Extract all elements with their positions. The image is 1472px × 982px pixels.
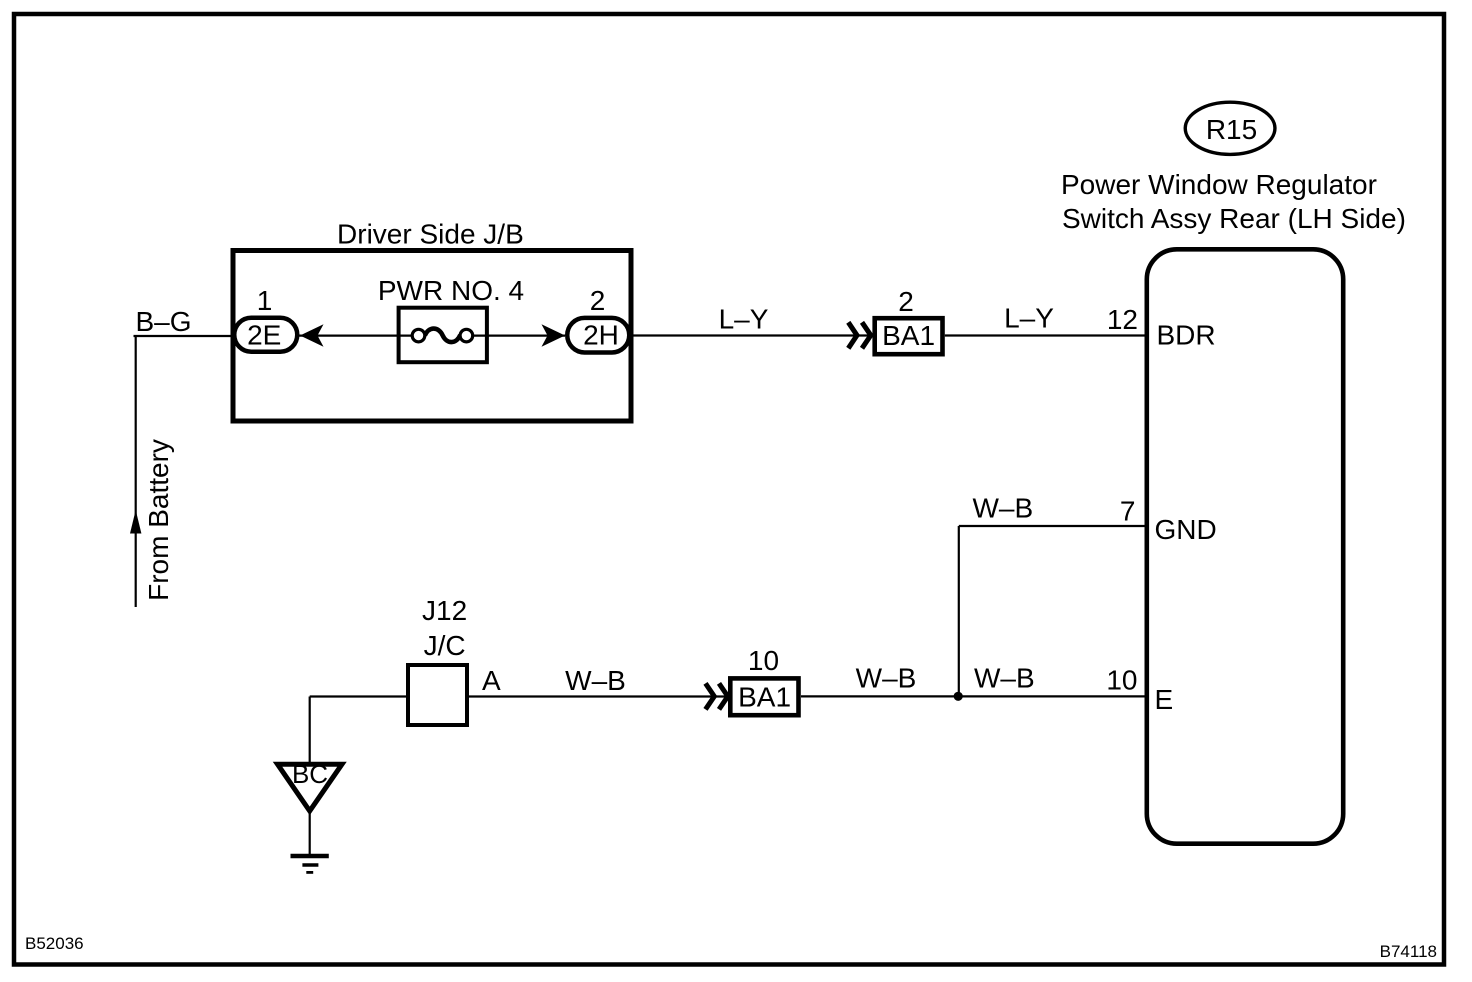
- inline connector BA1 pin 10: [706, 645, 799, 715]
- wire BC to ground symbol: [309, 811, 311, 855]
- svg-text:J12: J12: [422, 595, 467, 626]
- arrowhead into 2E: [300, 324, 324, 346]
- wire down to BC ground: [309, 697, 311, 763]
- svg-text:L–Y: L–Y: [719, 304, 769, 335]
- svg-text:Switch Assy Rear (LH Side): Switch Assy Rear (LH Side): [1062, 203, 1406, 234]
- wire L-Y from 2H to BA1: [632, 304, 873, 336]
- svg-text:W–B: W–B: [972, 493, 1033, 524]
- svg-text:10: 10: [748, 645, 779, 676]
- component body R15 switch assy: [1147, 249, 1343, 843]
- inline connector BA1 pin 2: [848, 286, 942, 354]
- svg-text:W–B: W–B: [856, 663, 917, 694]
- fuse PWR NO. 4: [378, 275, 524, 362]
- svg-text:GND: GND: [1155, 514, 1217, 545]
- svg-text:W–B: W–B: [974, 663, 1035, 694]
- svg-text:Driver Side J/B: Driver Side J/B: [337, 219, 524, 250]
- svg-text:A: A: [482, 665, 501, 696]
- svg-text:2: 2: [898, 286, 914, 317]
- wire from battery (vertical): [130, 336, 174, 607]
- svg-text:2E: 2E: [247, 320, 281, 351]
- svg-text:B74118: B74118: [1380, 942, 1437, 961]
- svg-text:7: 7: [1120, 495, 1136, 526]
- svg-text:B52036: B52036: [25, 934, 84, 953]
- svg-text:R15: R15: [1206, 114, 1257, 145]
- svg-text:E: E: [1155, 684, 1174, 715]
- component tag oval R15: [1185, 102, 1275, 154]
- component title Power Window Regulator Switch Assy Rear (LH Side): [1061, 169, 1406, 234]
- svg-text:2H: 2H: [583, 319, 619, 350]
- connector 2E pin 1: [234, 285, 297, 352]
- svg-text:Power Window Regulator: Power Window Regulator: [1061, 169, 1377, 200]
- svg-text:12: 12: [1107, 304, 1138, 335]
- ground symbol: [291, 856, 329, 872]
- svg-text:BDR: BDR: [1157, 320, 1216, 351]
- junction block Driver Side J/B: [233, 219, 631, 422]
- svg-text:From Battery: From Battery: [143, 439, 174, 601]
- wire ground riser to J/C: [310, 695, 406, 697]
- wire riser junction to GND: [958, 526, 960, 696]
- wire W-B from J/C pin A to BA1: [469, 665, 729, 697]
- ground point BC triangle: [278, 759, 343, 811]
- svg-text:J/C: J/C: [424, 630, 466, 661]
- wire B-G from battery to 2E: [134, 306, 241, 337]
- svg-text:2: 2: [590, 285, 606, 316]
- wire 2E to fuse: [299, 335, 420, 337]
- svg-text:1: 1: [257, 285, 273, 316]
- wire L-Y from BA1 to R15 pin 12: [945, 303, 1146, 336]
- svg-text:B–G: B–G: [136, 306, 192, 337]
- svg-text:BA1: BA1: [882, 320, 935, 351]
- svg-text:BC: BC: [292, 759, 328, 789]
- junction node dot: [954, 692, 963, 701]
- arrowhead into 2H: [542, 324, 566, 346]
- svg-text:W–B: W–B: [565, 665, 626, 696]
- wire W-B junction to pin 10 E: [801, 663, 1146, 697]
- svg-text:PWR NO. 4: PWR NO. 4: [378, 275, 524, 306]
- wire W-B to GND pin 7: [959, 493, 1146, 527]
- connector 2H pin 2: [567, 285, 629, 352]
- svg-text:BA1: BA1: [738, 682, 791, 713]
- svg-text:10: 10: [1106, 664, 1137, 695]
- junction connector J12 J/C: [408, 595, 501, 725]
- svg-text:L–Y: L–Y: [1004, 303, 1054, 334]
